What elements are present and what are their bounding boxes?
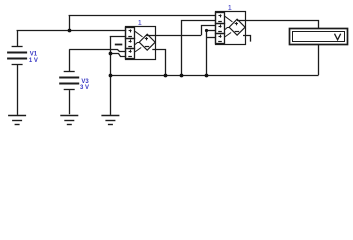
svg-text:3 V: 3 V [80, 85, 89, 91]
ground GND2 under V3 [60, 116, 78, 125]
node junction V1 / top bus [68, 29, 72, 33]
svg-text:1: 1 [138, 18, 142, 27]
wire top bus to summer U2 input 1+ [69, 15, 216, 17]
svg-text:1 V: 1 V [29, 58, 38, 64]
wire V1- lower lead [17, 64, 19, 115]
wire U2 reference stub [243, 36, 251, 42]
svg-text:V1: V1 [30, 52, 38, 58]
wire V1+ to summer U1 input 1+ [17, 30, 127, 32]
node ground bus / U1 reference riser [164, 74, 168, 78]
node ground bus / ground riser [109, 74, 113, 78]
ground GND3 on ground riser [101, 116, 119, 125]
wire ground riser x=110.4 [110, 36, 112, 115]
op-amp summer U2 (three-input summing block) [216, 12, 246, 45]
battery V1 [7, 31, 27, 65]
wire U2 input 1- riser to ground bus [182, 21, 216, 76]
wire U2 input 3+ stub [206, 37, 216, 39]
wire U1 input 1- to ground riser [110, 36, 126, 38]
ground GND1 under V1 [8, 116, 26, 125]
wire voltmeter negative lead riser [318, 45, 320, 75]
node ground bus / U2 riser x=181.2 [180, 74, 184, 78]
voltmeter U3 [290, 29, 348, 45]
node junction U2 input 2- / riser [205, 29, 208, 32]
wire U2 input 2- stub [206, 30, 216, 32]
wire ground riser x=206.3 [206, 31, 208, 75]
wire U2 output to voltmeter positive terminal [237, 21, 319, 29]
wire U1 output horizontal run [146, 35, 201, 37]
node junction input 3- / ground riser [109, 52, 113, 56]
battery V3 [59, 72, 79, 90]
wire U1 reference (diamond minus) down to ground bus [152, 50, 165, 76]
wire riser from V1 net up to top bus [69, 15, 71, 31]
op-amp summer U1 (three-input summing block) [126, 27, 156, 60]
svg-text:V3: V3 [81, 79, 89, 85]
ground bus horizontal [110, 75, 318, 77]
node ground bus / U2 riser x=206.3 [205, 74, 209, 78]
wire U1 input 2- stub [115, 44, 123, 46]
wire U1 input 3- to ground riser [110, 54, 126, 57]
wire V3- lower lead [69, 90, 71, 114]
svg-text:1: 1 [228, 3, 232, 12]
wire V3+ to U1 input 3+ [69, 50, 126, 52]
wire V3 upper lead [69, 49, 71, 71]
wire U1 output riser up into U2 input 2+ [202, 26, 216, 36]
